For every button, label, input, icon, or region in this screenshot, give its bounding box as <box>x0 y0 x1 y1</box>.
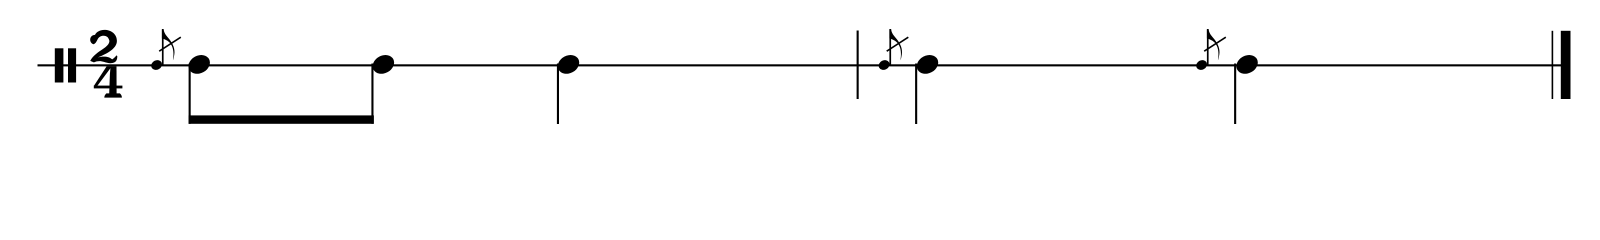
time signature denominator 4 <box>94 66 123 97</box>
grace flag <box>1207 29 1220 60</box>
grace slash <box>1204 37 1226 51</box>
final barline thin <box>1552 31 1554 99</box>
quarter note 2 head <box>913 51 941 77</box>
grace flag <box>889 29 902 60</box>
staff line <box>38 64 1571 66</box>
grace flag <box>162 29 175 60</box>
beam <box>189 115 374 123</box>
grace note 3 (acciaccatura) <box>1194 29 1225 72</box>
begin double thick barline bar B <box>68 48 76 82</box>
quarter note 1 head <box>554 51 582 77</box>
eighth note 2 head <box>369 51 397 77</box>
quarter note 2 stem <box>915 64 917 125</box>
grace notehead <box>877 58 891 72</box>
grace stem <box>889 30 891 66</box>
grace notehead <box>149 58 163 72</box>
quarter note 3 head <box>1233 51 1261 77</box>
eighth note 1 stem <box>189 64 191 124</box>
begin double thick barline bar A <box>55 48 64 82</box>
grace slash <box>159 37 181 51</box>
eighth note 1 head <box>185 51 213 77</box>
barline <box>857 31 859 100</box>
quarter note 1 stem <box>557 64 559 125</box>
quarter note 3 stem <box>1234 64 1236 125</box>
eighth note 2 stem <box>371 64 373 124</box>
grace notehead <box>1194 58 1208 72</box>
grace stem <box>162 30 164 66</box>
time signature numerator 2 <box>90 30 117 63</box>
grace note 1 (acciaccatura) <box>149 29 180 72</box>
grace note 2 (acciaccatura) <box>877 29 908 72</box>
final barline thick <box>1561 31 1571 99</box>
grace slash <box>887 37 909 51</box>
grace stem <box>1207 30 1209 66</box>
